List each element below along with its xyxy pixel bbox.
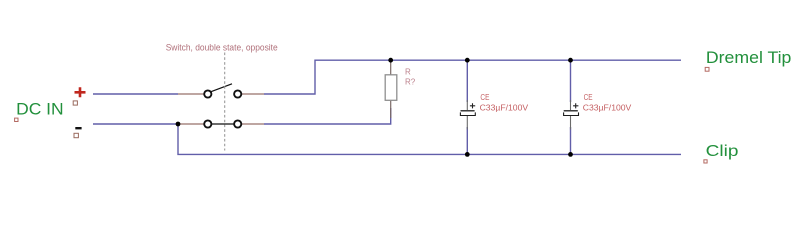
wire cap2 bottom [570, 127, 572, 154]
switch S1 contact circle top-right [234, 90, 241, 97]
svg-text:CE: CE [584, 93, 593, 102]
svg-text:CE: CE [480, 93, 489, 102]
switch S1 pin stub right bottom [242, 123, 264, 125]
pin marker square dremel tip [705, 67, 709, 71]
wire switch top output riser [264, 60, 681, 94]
switch S1 contact circle bottom-right [234, 120, 241, 127]
junction dot cap1 top [465, 58, 470, 63]
svg-text:R: R [405, 67, 411, 76]
wire bottom rail [178, 124, 681, 154]
capacitor C2 pin top [570, 100, 572, 110]
wire cap2 top [570, 60, 572, 102]
capacitor C1 top plate [461, 110, 475, 112]
resistor R pin top [390, 60, 392, 75]
capacitor C2 top plate [564, 110, 578, 112]
junction dot resistor top [388, 58, 393, 63]
capacitor C2 bottom plate bracket [564, 112, 579, 115]
wire plus input [93, 93, 178, 95]
switch S1 pin stub left top [178, 93, 204, 95]
svg-text:Switch, double state, opposite: Switch, double state, opposite [166, 42, 278, 53]
junction dot minus input [176, 122, 181, 127]
terminal minus symbol [75, 127, 81, 129]
wire minus input [93, 123, 178, 125]
svg-text:DC IN: DC IN [16, 100, 64, 119]
junction dot cap1 bottom [465, 152, 470, 157]
svg-text:C33µF/100V: C33µF/100V [583, 103, 632, 112]
pin marker square clip [704, 160, 707, 163]
resistor R body [385, 75, 397, 101]
switch S1 gang dashed link [224, 53, 226, 151]
capacitor C1 pin top [466, 100, 468, 110]
switch S1 lever bottom (closed) [212, 123, 234, 125]
switch S1 pin stub right top [242, 93, 264, 95]
switch S1 pin stub left bottom [178, 123, 204, 125]
junction dot cap2 top [568, 58, 573, 63]
capacitor C1 pin bottom [466, 116, 468, 130]
switch S1 contact circle top-left [204, 90, 211, 97]
resistor R pin bottom [390, 100, 392, 118]
wire minus to resistor bottom [264, 108, 391, 124]
junction dot cap2 bottom [568, 152, 573, 157]
svg-text:C33µF/100V: C33µF/100V [480, 103, 529, 112]
svg-text:R?: R? [405, 78, 416, 87]
capacitor C1 polarity plus [470, 103, 475, 108]
pin marker square DC IN [15, 118, 18, 121]
switch S1 contact circle bottom-left [204, 120, 211, 127]
svg-text:Dremel Tip: Dremel Tip [706, 49, 792, 67]
wire cap1 top [466, 60, 468, 102]
wire cap1 bottom [466, 127, 468, 154]
pin marker square minus [74, 133, 78, 137]
pin marker square plus [73, 101, 77, 105]
capacitor C2 polarity plus [573, 103, 578, 108]
svg-text:Clip: Clip [706, 143, 739, 160]
capacitor C2 pin bottom [570, 116, 572, 130]
capacitor C1 bottom plate bracket [460, 112, 475, 115]
terminal plus symbol [75, 87, 86, 97]
switch S1 lever top (open) [211, 84, 232, 92]
